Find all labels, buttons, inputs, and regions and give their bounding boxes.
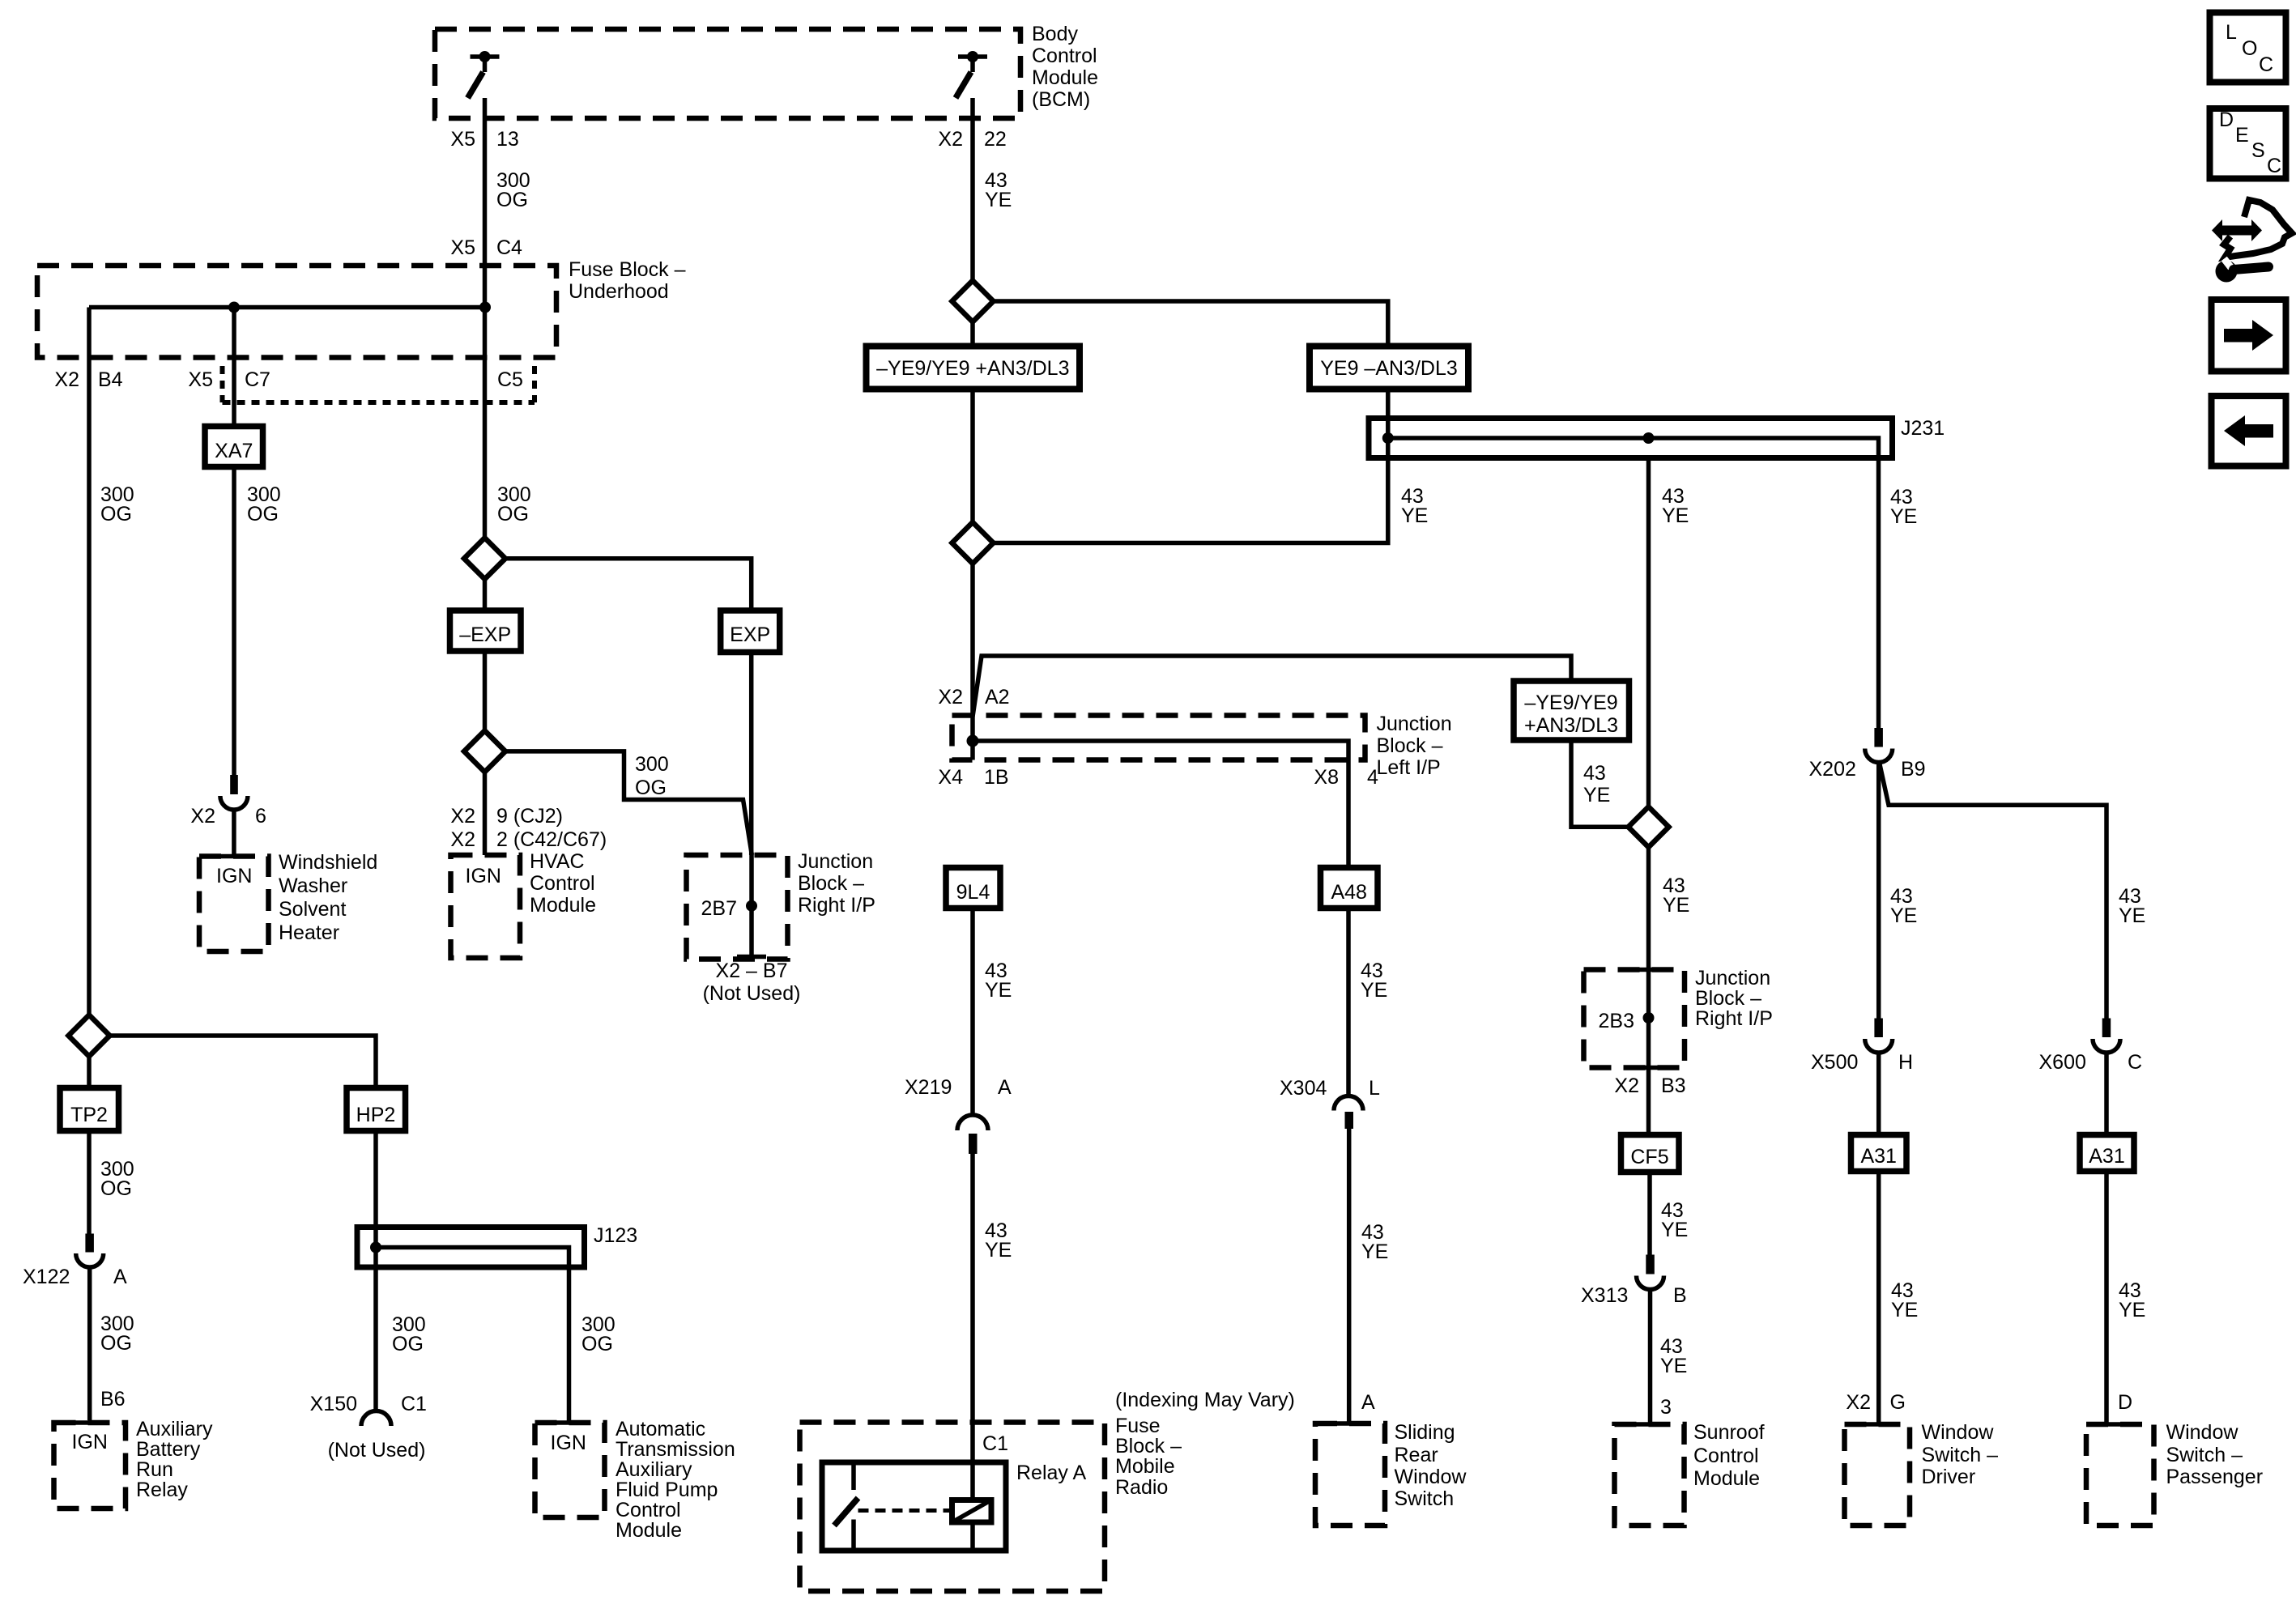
svg-text:YE: YE — [1890, 904, 1917, 927]
svg-text:A: A — [1361, 1391, 1375, 1414]
svg-text:O: O — [2242, 37, 2257, 60]
svg-text:Rear: Rear — [1395, 1444, 1438, 1466]
wire 43 YE from 9L4 to X219 — [970, 908, 975, 1116]
svg-text:C1: C1 — [401, 1393, 427, 1415]
DESC icon box — [2210, 109, 2286, 179]
Junction Block - Left I/P dashed box — [952, 716, 1365, 760]
wire end tick at sliding rear window switch — [1335, 1421, 1364, 1426]
wire from coil to relay box bottom — [970, 1522, 975, 1551]
svg-text:CF5: CF5 — [1630, 1146, 1668, 1168]
splice diamond on sunroof branch — [1629, 806, 1669, 847]
svg-text:X2 – B7: X2 – B7 — [716, 960, 788, 982]
svg-text:OG: OG — [247, 503, 279, 526]
junction node in J231 (left) — [1382, 432, 1394, 444]
svg-text:E: E — [2235, 124, 2249, 147]
svg-text:Module: Module — [530, 894, 596, 917]
back arrow icon box — [2212, 396, 2286, 466]
junction node at XA7 branch — [228, 302, 240, 313]
wire stub inside 2B7 with terminal 2B7 — [749, 855, 754, 956]
svg-text:X2: X2 — [190, 805, 215, 828]
wire 43 YE from CF5 to X313 — [1647, 1172, 1652, 1255]
svg-text:Relay: Relay — [136, 1479, 188, 1501]
svg-text:X5: X5 — [450, 128, 475, 151]
svg-text:S: S — [2251, 139, 2265, 162]
svg-text:Window: Window — [1922, 1421, 1995, 1444]
fuse A31 box (driver) — [1851, 1135, 1907, 1172]
wire from option box to lower diamond — [970, 389, 975, 523]
dotted connector strip under fuse block — [220, 366, 225, 402]
svg-text:Sunroof: Sunroof — [1693, 1421, 1765, 1444]
wire 300 OG branch from bottom diamond to junction block 2B7 — [505, 751, 752, 855]
svg-text:Right I/P: Right I/P — [798, 894, 875, 917]
svg-text:Module: Module — [1693, 1467, 1760, 1490]
wire 43 YE from A31 to driver switch — [1876, 1172, 1881, 1423]
svg-text:C5: C5 — [497, 368, 523, 391]
svg-text:L: L — [1369, 1077, 1380, 1100]
Body Control Module (BCM) dashed box — [435, 29, 1020, 118]
svg-text:C: C — [2267, 155, 2281, 177]
svg-text:Run: Run — [136, 1458, 173, 1481]
svg-text:A2: A2 — [985, 686, 1010, 709]
svg-text:Underhood: Underhood — [569, 280, 669, 303]
svg-text:–YE9/YE9 +AN3/DL3: –YE9/YE9 +AN3/DL3 — [876, 357, 1069, 380]
svg-text:B4: B4 — [98, 368, 123, 391]
svg-text:Module: Module — [616, 1519, 682, 1542]
svg-text:Control: Control — [1693, 1445, 1759, 1467]
svg-text:(BCM): (BCM) — [1032, 88, 1090, 111]
svg-text:EXP: EXP — [730, 623, 770, 646]
svg-text:YE: YE — [1583, 784, 1610, 806]
svg-text:Windshield: Windshield — [279, 851, 377, 874]
svg-text:YE: YE — [1890, 505, 1917, 528]
connector X150 pin C1 (not used) dome — [361, 1411, 391, 1426]
svg-text:IGN: IGN — [466, 865, 501, 887]
svg-text:Fuse: Fuse — [1115, 1415, 1161, 1437]
svg-text:Junction: Junction — [1377, 713, 1452, 735]
wire 300 OG left branch from fuse block B4 down to diamond — [87, 308, 92, 1015]
splice pack J231 box — [1369, 419, 1893, 458]
svg-text:C: C — [2128, 1051, 2142, 1074]
svg-text:6: 6 — [255, 805, 266, 828]
svg-text:YE: YE — [1660, 1355, 1687, 1377]
svg-text:G: G — [1890, 1391, 1906, 1414]
Sunroof Control Module dashed box — [1615, 1424, 1685, 1526]
svg-text:C4: C4 — [496, 236, 522, 259]
splice diamond (lower) on 43 YE wire — [952, 522, 994, 564]
svg-text:C1: C1 — [982, 1432, 1008, 1455]
svg-text:3: 3 — [1660, 1396, 1672, 1419]
wire 43 YE sunroof branch from J231 down — [1646, 458, 1651, 970]
svg-text:X600: X600 — [2039, 1051, 2086, 1074]
wire 300 OG from HP2 through J123 to X150 — [373, 1131, 378, 1412]
svg-text:OG: OG — [392, 1333, 424, 1355]
svg-text:X219: X219 — [905, 1076, 952, 1099]
fuse A31 box (passenger) — [2080, 1135, 2134, 1172]
wire 43 YE from BCM X2-22 down to first diamond — [970, 98, 975, 281]
svg-text:Driver: Driver — [1922, 1466, 1976, 1488]
svg-text:Fluid Pump: Fluid Pump — [616, 1479, 718, 1501]
svg-text:YE: YE — [985, 189, 1012, 211]
svg-text:Junction: Junction — [798, 850, 873, 873]
wire to TP2 — [87, 1057, 92, 1088]
svg-text:Block –: Block – — [1115, 1435, 1182, 1457]
svg-text:A31: A31 — [1860, 1145, 1896, 1168]
svg-text:X2: X2 — [1846, 1391, 1871, 1414]
svg-text:IGN: IGN — [551, 1432, 586, 1454]
svg-text:H: H — [1898, 1051, 1913, 1074]
svg-text:OG: OG — [635, 777, 667, 799]
inline connector X202 pin B9 (plug and cup) — [1865, 728, 1893, 763]
Junction Block - Right I/P dashed box (2B7) — [687, 855, 788, 960]
svg-text:B6: B6 — [100, 1388, 126, 1411]
wire from YE9 box through splice pack J231 down and back to lower diamond — [994, 389, 1388, 543]
Window Switch - Driver dashed box — [1845, 1424, 1910, 1526]
wire end tick at passenger window switch — [2092, 1422, 2121, 1427]
bus inside Left I/P block and branch down to A48 — [973, 741, 1348, 868]
svg-text:X2: X2 — [938, 686, 963, 709]
junction node 2B3 — [1643, 1012, 1655, 1023]
svg-text:Switch –: Switch – — [2166, 1444, 2243, 1466]
svg-text:YE: YE — [1361, 1240, 1388, 1263]
relay A solid box — [822, 1462, 1006, 1551]
Window Switch - Passenger dashed box — [2086, 1424, 2154, 1526]
wire 43 YE driver window branch from J231 down to X202 — [1876, 458, 1881, 729]
svg-text:Radio: Radio — [1115, 1476, 1168, 1499]
wire into -YE9/YE9 +AN3/DL3 option box — [970, 322, 975, 347]
svg-text:OG: OG — [100, 1177, 132, 1200]
svg-text:–YE9/YE9: –YE9/YE9 — [1524, 691, 1617, 714]
svg-text:Block –: Block – — [1695, 987, 1761, 1010]
svg-text:OG: OG — [100, 1332, 132, 1355]
wire 300 OG from XA7 to washer heater connector — [232, 467, 236, 776]
Auxiliary Battery Run Relay dashed box with IGN pin — [54, 1423, 126, 1508]
svg-text:B: B — [1673, 1284, 1687, 1307]
splice diamond on left branch — [69, 1015, 110, 1057]
svg-text:X2: X2 — [938, 128, 963, 151]
splice bus inside J123 and branch down — [376, 1248, 569, 1423]
svg-text:Module: Module — [1032, 66, 1098, 89]
svg-text:X5: X5 — [450, 236, 475, 259]
wire from EXP down to junction block 2B7 — [749, 653, 754, 856]
svg-text:HVAC: HVAC — [530, 850, 585, 873]
wire loop from upper diamond to YE9 -AN3/DL3 box — [994, 301, 1388, 347]
wire through 2B3 with entry/exit ticks — [1634, 968, 1663, 972]
svg-text:Heater: Heater — [279, 921, 339, 944]
svg-text:A31: A31 — [2089, 1145, 2124, 1168]
option box -YE9/YE9 +AN3/DL3 (second) — [1514, 681, 1629, 740]
inline connector X304 pin L (dome and plug) — [1334, 1096, 1363, 1423]
RPO -EXP box — [450, 611, 522, 651]
svg-text:Control: Control — [1032, 45, 1097, 67]
inline connector X313 pin B (plug and cup) — [1637, 1255, 1664, 1423]
svg-text:YE: YE — [1361, 979, 1387, 1002]
Windshield Washer Solvent Heater dashed box with IGN pin — [199, 857, 269, 952]
svg-text:Automatic: Automatic — [616, 1418, 705, 1440]
forward arrow icon box — [2212, 300, 2286, 372]
wire 300 OG from bus junction down to XA7 — [232, 308, 236, 427]
fuse XA7 box — [205, 427, 263, 467]
svg-text:YE9 –AN3/DL3: YE9 –AN3/DL3 — [1320, 357, 1458, 380]
svg-text:Switch: Switch — [1395, 1487, 1455, 1510]
svg-text:IGN: IGN — [72, 1431, 108, 1453]
junction node in J231 (middle) — [1643, 432, 1655, 444]
svg-text:X2: X2 — [54, 368, 79, 391]
svg-text:Sliding: Sliding — [1395, 1421, 1455, 1444]
svg-text:TP2: TP2 — [70, 1104, 108, 1126]
svg-text:2B3: 2B3 — [1599, 1010, 1634, 1032]
svg-text:B9: B9 — [1901, 758, 1926, 781]
svg-text:Relay A: Relay A — [1016, 1462, 1086, 1484]
option box -YE9/YE9 +AN3/DL3 — [867, 347, 1080, 389]
wire branch from top diamond to EXP — [505, 559, 752, 611]
wire end tick at sunroof module — [1636, 1422, 1665, 1427]
svg-text:Transmission: Transmission — [616, 1438, 735, 1461]
wire end tick at relay box — [75, 1420, 104, 1425]
Automatic Transmission Auxiliary Fluid Pump Control Module dashed box with IGN pin — [535, 1423, 605, 1517]
svg-text:Right I/P: Right I/P — [1695, 1007, 1773, 1030]
svg-text:J123: J123 — [594, 1224, 637, 1247]
svg-text:XA7: XA7 — [215, 440, 253, 462]
svg-text:2 (C42/C67): 2 (C42/C67) — [496, 828, 607, 851]
svg-text:X2: X2 — [1614, 1074, 1639, 1097]
wire 300 OG below TP2 — [87, 1131, 92, 1234]
svg-text:X500: X500 — [1811, 1051, 1858, 1074]
svg-text:9L4: 9L4 — [956, 881, 990, 904]
svg-text:Window: Window — [2166, 1421, 2239, 1444]
wire 43 YE from lower diamond down into Junction Block Left I/P — [970, 564, 975, 760]
branch wire to passenger window switch — [1880, 764, 2106, 1019]
svg-text:X304: X304 — [1280, 1077, 1327, 1100]
double arrow with wrench icon — [2212, 200, 2292, 283]
svg-text:Fuse Block –: Fuse Block – — [569, 258, 686, 281]
option box YE9 -AN3/DL3 — [1310, 347, 1468, 389]
svg-text:X122: X122 — [23, 1266, 70, 1288]
svg-text:YE: YE — [1662, 504, 1689, 527]
svg-text:YE: YE — [2119, 904, 2145, 927]
svg-text:OG: OG — [496, 189, 528, 211]
wire 300 OG from BCM X5-13 down through Fuse Block to HVAC branch diamond — [483, 98, 488, 538]
svg-text:(Indexing May Vary): (Indexing May Vary) — [1115, 1389, 1295, 1411]
svg-text:Auxiliary: Auxiliary — [136, 1418, 213, 1440]
svg-text:–EXP: –EXP — [459, 623, 511, 646]
svg-text:A48: A48 — [1331, 881, 1366, 904]
bus wire inside fuse block — [89, 305, 485, 310]
svg-text:YE: YE — [1661, 1219, 1688, 1241]
LOC icon box — [2210, 13, 2286, 83]
svg-text:+AN3/DL3: +AN3/DL3 — [1524, 714, 1618, 737]
svg-text:J231: J231 — [1901, 417, 1945, 440]
svg-text:OG: OG — [100, 503, 132, 526]
svg-text:YE: YE — [985, 1239, 1012, 1262]
wire end tick at pump module box — [555, 1420, 584, 1425]
svg-text:Control: Control — [530, 872, 595, 895]
splice diamond on HVAC branch (top) — [464, 538, 505, 579]
svg-text:D: D — [2118, 1391, 2132, 1414]
branch wire to -YE9/YE9 +AN3/DL3 option box (right) — [973, 656, 1571, 717]
svg-text:C: C — [2259, 53, 2273, 76]
wire from -EXP to lower diamond — [483, 651, 488, 730]
svg-text:13: 13 — [496, 128, 519, 151]
wire from diamond to -EXP — [483, 579, 488, 611]
fuse HP2 box — [347, 1088, 406, 1131]
Fuse Block - Mobile Radio dashed box — [800, 1423, 1105, 1592]
Sliding Rear Window Switch dashed box — [1315, 1423, 1385, 1526]
svg-text:(Not Used): (Not Used) — [703, 982, 801, 1005]
wire 43 YE from A31 to passenger switch — [2104, 1172, 2109, 1423]
svg-text:YE: YE — [2119, 1299, 2145, 1321]
svg-text:X2: X2 — [450, 805, 475, 828]
svg-text:Solvent: Solvent — [279, 898, 346, 921]
relay coil link dashed — [858, 1508, 952, 1513]
svg-text:OG: OG — [581, 1333, 613, 1355]
inline connector X2 pin 6 (plug and cup) — [219, 775, 249, 857]
svg-text:(Not Used): (Not Used) — [328, 1439, 426, 1462]
fuse 9L4 box — [946, 868, 1000, 908]
svg-text:X313: X313 — [1581, 1284, 1628, 1307]
inline connector X122 pin A (plug and cup) — [76, 1234, 104, 1421]
relay contact stubs and blade — [851, 1462, 856, 1490]
Fuse Block - Underhood dashed box — [37, 266, 556, 358]
svg-text:300: 300 — [635, 753, 669, 776]
svg-text:Left I/P: Left I/P — [1377, 756, 1441, 779]
wire 43 YE from A48 to X304 — [1346, 908, 1351, 1097]
svg-text:A: A — [998, 1076, 1012, 1099]
svg-text:Block –: Block – — [1377, 734, 1443, 757]
fuse CF5 box — [1621, 1135, 1680, 1172]
svg-text:9 (CJ2): 9 (CJ2) — [496, 805, 563, 828]
svg-text:X4: X4 — [938, 766, 963, 789]
junction node in Left I/P block — [967, 735, 979, 747]
svg-text:Switch –: Switch – — [1922, 1444, 1999, 1466]
svg-text:HP2: HP2 — [356, 1104, 396, 1126]
fuse TP2 box — [60, 1088, 119, 1131]
svg-text:X5: X5 — [188, 368, 213, 391]
HVAC Control Module dashed box with IGN pin — [451, 855, 521, 958]
svg-text:YE: YE — [985, 979, 1012, 1002]
inline connector X500 pin H (plug and cup) — [1865, 1019, 1893, 1135]
relay coil box — [952, 1500, 992, 1523]
svg-text:A: A — [113, 1266, 127, 1288]
wire below X202 splitting to driver and passenger — [1876, 763, 1881, 1019]
svg-text:X202: X202 — [1809, 758, 1856, 781]
inline connector X219 pin A (dome and plug) — [957, 1115, 988, 1500]
svg-text:Junction: Junction — [1695, 967, 1770, 989]
svg-text:C7: C7 — [245, 368, 270, 391]
svg-text:43: 43 — [1583, 762, 1606, 785]
svg-text:Window: Window — [1395, 1466, 1467, 1488]
svg-text:Battery: Battery — [136, 1438, 201, 1461]
switch contact inside BCM (left, X5-13 output) — [468, 51, 500, 98]
inline connector X600 pin C (plug and cup) — [2093, 1019, 2120, 1135]
svg-text:1B: 1B — [984, 766, 1009, 789]
splice diamond (upper) on 43 YE wire — [952, 281, 994, 322]
svg-text:L: L — [2226, 21, 2237, 44]
RPO EXP box — [721, 611, 780, 653]
svg-text:22: 22 — [984, 128, 1007, 151]
svg-text:D: D — [2219, 109, 2234, 131]
fuse A48 box — [1321, 868, 1378, 908]
svg-text:X8: X8 — [1314, 766, 1339, 789]
svg-text:Body: Body — [1032, 23, 1078, 45]
splice pack J123 box — [357, 1228, 585, 1268]
svg-text:Control: Control — [616, 1499, 681, 1521]
svg-text:OG: OG — [497, 503, 529, 526]
wire from diamond right to HP2 branch — [110, 1036, 377, 1088]
wire end tick at driver window switch — [1864, 1422, 1893, 1427]
switch contact inside BCM (right, X2-22 output) — [956, 51, 987, 98]
svg-text:4: 4 — [1367, 766, 1378, 789]
junction node at C4/C5 wire — [479, 302, 491, 313]
svg-text:X2: X2 — [450, 828, 475, 851]
svg-text:Block –: Block – — [798, 872, 864, 895]
svg-text:IGN: IGN — [216, 865, 252, 887]
svg-text:Passenger: Passenger — [2166, 1466, 2264, 1488]
wire from diamond to HVAC module — [483, 772, 488, 855]
svg-text:Washer: Washer — [279, 874, 347, 897]
splice bus inside J231 — [1388, 438, 1879, 458]
svg-text:YE: YE — [1891, 1299, 1918, 1321]
svg-text:B3: B3 — [1661, 1074, 1686, 1097]
splice diamond on HVAC branch (bottom) — [464, 730, 505, 772]
svg-text:YE: YE — [1401, 504, 1428, 527]
wire 43 YE from option box to sunroof diamond — [1571, 740, 1629, 827]
Junction Block - Right I/P dashed box (2B3) — [1584, 970, 1685, 1068]
svg-text:2B7: 2B7 — [701, 897, 737, 920]
svg-text:YE: YE — [1663, 894, 1689, 917]
svg-text:X150: X150 — [310, 1393, 357, 1415]
svg-text:Auxiliary: Auxiliary — [616, 1458, 692, 1481]
svg-text:Mobile: Mobile — [1115, 1455, 1175, 1478]
junction node in J123 — [370, 1242, 381, 1253]
